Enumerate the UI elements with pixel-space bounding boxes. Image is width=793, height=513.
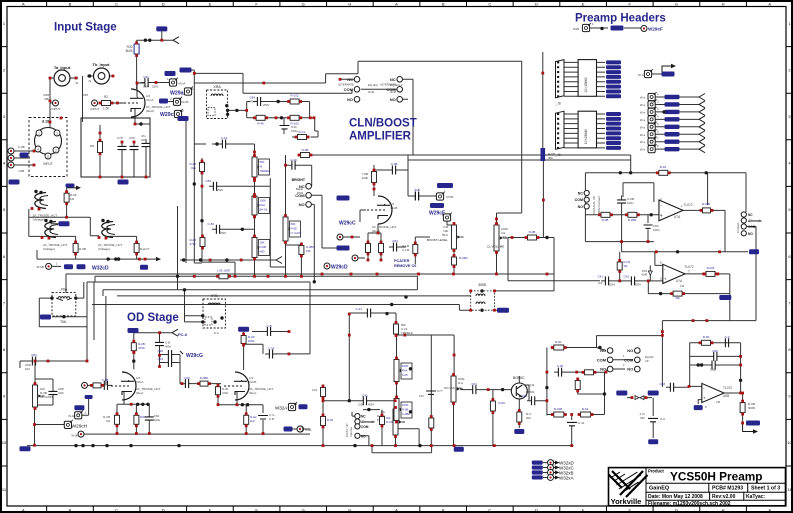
- svg-text:B: B: [69, 507, 72, 512]
- svg-text:GainEQ: GainEQ: [649, 486, 670, 492]
- svg-text:NC: NC: [347, 77, 353, 82]
- svg-text:R-0B: R-0B: [602, 218, 609, 222]
- svg-text:W32cD: W32cD: [92, 265, 109, 271]
- svg-text:X?B: X?B: [211, 294, 218, 298]
- svg-text:K-b: K-b: [214, 331, 219, 335]
- svg-text:NO: NO: [347, 97, 353, 102]
- svg-text:COM: COM: [748, 225, 756, 229]
- svg-text:Rev:v2.00: Rev:v2.00: [712, 494, 736, 500]
- svg-text:E: E: [209, 1, 212, 6]
- svg-text:R-HCT: R-HCT: [140, 247, 149, 251]
- svg-text:COM: COM: [344, 87, 354, 92]
- svg-text:BO50C: BO50C: [513, 376, 525, 380]
- svg-text:U6B: U6B: [723, 394, 729, 398]
- svg-text:INPUT: INPUT: [43, 162, 53, 166]
- svg-text:XRA: XRA: [213, 85, 221, 89]
- svg-text:470K: 470K: [138, 346, 145, 350]
- svg-text:A: A: [22, 507, 25, 512]
- svg-text:BA-06: BA-06: [260, 208, 268, 212]
- svg-text:NC: NC: [299, 184, 305, 189]
- svg-text:ALTERNATE: ALTERNATE: [338, 83, 354, 87]
- svg-text:OD VOLUME: OD VOLUME: [444, 386, 462, 390]
- svg-text:C32: C32: [143, 75, 149, 79]
- svg-text:NC: NC: [361, 415, 366, 419]
- svg-text:R-A: R-A: [458, 381, 463, 385]
- svg-text:100n: 100n: [143, 85, 150, 89]
- svg-text:C: C: [115, 507, 118, 512]
- svg-text:1.5k: 1.5k: [103, 107, 109, 111]
- svg-text:(Voltage): (Voltage): [33, 218, 45, 222]
- svg-text:W-a: W-a: [640, 133, 646, 137]
- svg-text:R-0B6: R-0B6: [628, 218, 637, 222]
- svg-text:OD GAIN: OD GAIN: [40, 395, 53, 399]
- svg-text:D: D: [162, 507, 165, 512]
- svg-text:H: H: [348, 1, 351, 6]
- svg-text:3008: 3008: [478, 283, 486, 287]
- svg-text:K-0B: K-0B: [18, 145, 25, 149]
- svg-text:100u: 100u: [291, 129, 298, 133]
- svg-text:LES: LES: [501, 235, 507, 239]
- svg-text:V2nB: V2nB: [249, 380, 256, 384]
- svg-text:H: H: [348, 507, 351, 512]
- svg-text:L-06 100R: L-06 100R: [217, 269, 230, 273]
- svg-text:C-41: C-41: [578, 421, 585, 425]
- svg-text:C68: C68: [659, 382, 665, 386]
- svg-text:W29cC: W29cC: [339, 221, 356, 227]
- svg-text:W-a: W-a: [640, 148, 646, 152]
- svg-text:C-0: C-0: [660, 417, 665, 421]
- svg-text:W-a: W-a: [640, 96, 646, 100]
- svg-text:+: +: [703, 396, 706, 401]
- svg-text:COM: COM: [295, 193, 305, 198]
- svg-text:R-00: R-00: [703, 335, 710, 339]
- svg-text:100n: 100n: [627, 201, 634, 205]
- svg-text:R-0B2: R-0B2: [459, 256, 468, 260]
- svg-text:1M: 1M: [70, 197, 75, 201]
- svg-text:4148: 4148: [641, 273, 647, 277]
- svg-text:OD Stage: OD Stage: [127, 312, 179, 324]
- svg-text:C-0B6: C-0B6: [402, 412, 410, 416]
- svg-text:C42: C42: [362, 394, 368, 398]
- svg-text:Ta_Input: Ta_Input: [54, 65, 71, 70]
- svg-text:REMOVE C6: REMOVE C6: [394, 264, 416, 268]
- svg-text:R-08: R-08: [291, 227, 298, 231]
- svg-text:600R: 600R: [748, 406, 756, 410]
- svg-text:Filename: m1293v200sch.sch 200: Filename: m1293v200sch.sch 2002: [648, 501, 731, 507]
- svg-text:Volume: Volume: [349, 427, 353, 437]
- svg-text:100k: 100k: [248, 339, 255, 343]
- svg-text:8k06: 8k06: [126, 49, 133, 53]
- svg-text:EQ-0nA: EQ-0nA: [368, 83, 378, 87]
- svg-text:C42: C42: [623, 275, 629, 279]
- svg-text:V1nA: V1nA: [178, 82, 185, 86]
- svg-text:NO: NO: [299, 202, 305, 207]
- svg-text:7: 7: [688, 270, 690, 274]
- svg-text:_J6: _J6: [555, 153, 561, 157]
- svg-text:(Rev): (Rev): [136, 391, 143, 395]
- svg-text:250V: 250V: [152, 85, 159, 89]
- svg-text:R4A: R4A: [402, 369, 408, 373]
- svg-text:R35: R35: [82, 93, 88, 97]
- svg-text:D: D: [535, 1, 538, 6]
- svg-text:BOOST LEVEL: BOOST LEVEL: [427, 238, 448, 242]
- svg-text:D1N: D1N: [642, 269, 647, 273]
- svg-text:C-LB: C-LB: [402, 248, 409, 252]
- svg-text:W32A: W32A: [275, 405, 287, 410]
- svg-text:C84: C84: [58, 391, 64, 395]
- svg-text:16V: 16V: [419, 394, 424, 398]
- svg-text:400V: 400V: [368, 403, 374, 407]
- svg-text:W-a: W-a: [640, 140, 646, 144]
- svg-text:30k: 30k: [548, 156, 553, 160]
- svg-text:Sheet 1 of 3: Sheet 1 of 3: [751, 486, 780, 492]
- svg-text:100K: 100K: [260, 199, 267, 203]
- svg-text:COAXIAL UP: COAXIAL UP: [592, 196, 596, 214]
- svg-text:W29: W29: [573, 27, 580, 31]
- svg-text:TL072: TL072: [684, 203, 693, 207]
- svg-text:D: D: [162, 1, 165, 6]
- svg-text:LM: LM: [716, 400, 721, 404]
- svg-text:C38: C38: [157, 349, 163, 353]
- svg-text:R-00: R-00: [555, 340, 562, 344]
- svg-text:10K: 10K: [260, 241, 265, 245]
- svg-text:C-0: C-0: [725, 335, 730, 339]
- svg-text:C84: C84: [205, 179, 211, 183]
- svg-text:W-a: W-a: [640, 125, 646, 129]
- svg-text:A: A: [768, 1, 771, 6]
- svg-text:X0A: X0A: [61, 288, 68, 292]
- svg-text:R-0B: R-0B: [260, 245, 267, 249]
- svg-text:C26: C26: [184, 376, 190, 380]
- svg-text:U7A: U7A: [674, 215, 681, 219]
- svg-text:E: E: [209, 507, 212, 512]
- svg-text:E: E: [582, 507, 585, 512]
- svg-text:Date: Mon May 12 2008: Date: Mon May 12 2008: [648, 494, 703, 500]
- svg-text:R2: R2: [104, 95, 108, 99]
- svg-text:R-0B: R-0B: [302, 148, 309, 152]
- svg-text:B: B: [442, 213, 444, 217]
- svg-text:V-0A: V-0A: [305, 428, 312, 432]
- svg-text:400V: 400V: [165, 345, 171, 349]
- svg-text:R-005: R-005: [554, 407, 563, 411]
- svg-text:C: C: [115, 1, 118, 6]
- svg-text:TREBLE: TREBLE: [401, 331, 413, 335]
- svg-text:R-CL: R-CL: [298, 130, 305, 134]
- svg-text:COM: COM: [624, 357, 634, 362]
- svg-text:220n: 220n: [358, 403, 364, 407]
- svg-text:W-0B: W-0B: [37, 265, 44, 269]
- svg-text:C30: C30: [129, 136, 135, 140]
- svg-text:COM: COM: [361, 425, 369, 429]
- svg-text:100u: 100u: [154, 418, 161, 422]
- svg-text:NO: NO: [390, 97, 396, 102]
- svg-text:TL072: TL072: [685, 265, 694, 269]
- svg-text:C-00: C-00: [557, 364, 564, 368]
- svg-text:(Voltage): (Voltage): [98, 247, 110, 251]
- svg-text:A: A: [395, 507, 398, 512]
- svg-text:1k0: 1k0: [250, 419, 255, 423]
- svg-text:KaTyac:: KaTyac:: [746, 494, 765, 500]
- svg-text:470k: 470k: [189, 242, 196, 246]
- svg-text:Input Stage: Input Stage: [54, 22, 117, 34]
- svg-text:C-16: C-16: [221, 136, 228, 140]
- svg-text:470k: 470k: [222, 391, 229, 395]
- svg-text:H: H: [722, 1, 725, 6]
- svg-text:C8: C8: [141, 138, 145, 142]
- svg-text:PCB# M1293: PCB# M1293: [712, 486, 743, 492]
- svg-text:NO: NO: [578, 205, 584, 209]
- svg-text:_J8: _J8: [555, 102, 561, 106]
- svg-text:J-0B: J-0B: [18, 169, 24, 173]
- svg-text:25V: 25V: [640, 416, 645, 420]
- svg-text:G: G: [302, 507, 305, 512]
- svg-text:R-0B: R-0B: [402, 408, 409, 412]
- svg-text:PC-0: PC-0: [178, 332, 188, 337]
- svg-text:H: H: [722, 507, 725, 512]
- svg-text:Alternate: Alternate: [748, 219, 762, 223]
- svg-text:C: C: [488, 507, 491, 512]
- svg-text:V1nB: V1nB: [390, 206, 397, 210]
- svg-text:50k: 50k: [675, 296, 680, 300]
- svg-text:250V: 250V: [263, 103, 269, 107]
- svg-text:10×15640: 10×15640: [584, 129, 588, 144]
- svg-text:R-02: R-02: [660, 165, 667, 169]
- svg-text:C-0B: C-0B: [391, 162, 398, 166]
- svg-text:C-B: C-B: [165, 341, 170, 345]
- svg-text:Yorkville: Yorkville: [611, 497, 642, 506]
- svg-text:D: D: [535, 507, 538, 512]
- svg-text:C23: C23: [157, 357, 163, 361]
- svg-text:R30: R30: [140, 415, 146, 419]
- svg-text:15k: 15k: [306, 249, 311, 253]
- svg-text:b-05: b-05: [402, 373, 408, 377]
- svg-text:UP: UP: [645, 359, 649, 363]
- svg-text:100p: 100p: [710, 368, 717, 372]
- svg-text:50K: 50K: [291, 222, 296, 226]
- svg-text:V2nA: V2nA: [136, 380, 143, 384]
- svg-text:W29cH: W29cH: [72, 424, 88, 430]
- svg-text:TREBLE: TREBLE: [260, 169, 271, 173]
- svg-text:B0501: B0501: [526, 390, 535, 394]
- svg-text:C-0B: C-0B: [102, 378, 109, 382]
- svg-text:16V: 16V: [25, 367, 30, 371]
- svg-text:C41: C41: [597, 275, 603, 279]
- svg-text:C-34: C-34: [268, 347, 275, 351]
- svg-text:Alternate: Alternate: [361, 420, 375, 424]
- svg-text:A: A: [768, 507, 771, 512]
- svg-text:C84: C84: [392, 239, 398, 243]
- svg-text:1M: 1M: [106, 419, 111, 423]
- svg-text:NC: NC: [390, 77, 396, 82]
- svg-text:COAX UP: COAX UP: [345, 423, 349, 437]
- svg-text:1M: 1M: [624, 264, 629, 268]
- svg-text:G: G: [675, 1, 678, 6]
- svg-text:W-0: W-0: [638, 73, 644, 77]
- svg-text:50K: 50K: [260, 160, 265, 164]
- svg-text:G: G: [675, 507, 678, 512]
- svg-text:2n2: 2n2: [598, 281, 603, 285]
- svg-text:J1: J1: [88, 79, 92, 83]
- svg-text:C-B: C-B: [269, 417, 274, 421]
- svg-text:E: E: [582, 1, 585, 6]
- svg-text:R-02: R-02: [582, 407, 589, 411]
- svg-text:R-005: R-005: [707, 266, 715, 270]
- svg-text:d.19: d.19: [42, 120, 49, 124]
- svg-text:3n40: 3n40: [368, 90, 375, 94]
- svg-text:B: B: [69, 1, 72, 6]
- svg-text:W-a: W-a: [640, 110, 646, 114]
- svg-text:W-a: W-a: [640, 103, 646, 107]
- svg-text:C7P: C7P: [117, 136, 123, 140]
- svg-text:W: W: [260, 165, 263, 169]
- svg-text:B: B: [442, 507, 445, 512]
- svg-text:CL VOLUME: CL VOLUME: [487, 245, 504, 249]
- svg-text:(Voltage): (Voltage): [43, 247, 55, 251]
- svg-text:C84: C84: [249, 96, 255, 100]
- svg-text:C-86: C-86: [207, 222, 214, 226]
- svg-text:2k0: 2k0: [526, 416, 531, 420]
- svg-text:J2: J2: [75, 81, 79, 85]
- svg-text:MID: MID: [260, 250, 265, 254]
- svg-text:W29cG: W29cG: [186, 353, 203, 359]
- svg-text:250V: 250V: [217, 188, 223, 192]
- svg-text:C: C: [488, 1, 491, 6]
- svg-text:B: B: [442, 1, 445, 6]
- svg-text:C84: C84: [31, 353, 37, 357]
- svg-text:NO: NO: [600, 348, 606, 353]
- svg-text:A: A: [395, 1, 398, 6]
- svg-text:C77: C77: [437, 389, 443, 393]
- svg-text:NO: NO: [748, 232, 753, 236]
- svg-text:C34: C34: [312, 388, 318, 392]
- svg-text:COM: COM: [597, 357, 607, 362]
- svg-text:82k: 82k: [191, 166, 196, 170]
- svg-text:NO: NO: [627, 348, 633, 353]
- svg-text:W-0b: W-0b: [71, 434, 78, 438]
- svg-text:Preamp Headers: Preamp Headers: [575, 13, 666, 25]
- svg-text:+: +: [664, 277, 667, 282]
- svg-text:10: 10: [787, 440, 792, 445]
- svg-text:R-102: R-102: [291, 94, 300, 98]
- svg-text:3n40: 3n40: [390, 90, 397, 94]
- svg-text:10×15640: 10×15640: [584, 77, 588, 92]
- svg-text:O. GAIN: O. GAIN: [291, 231, 302, 235]
- svg-text:W29cF: W29cF: [648, 27, 663, 32]
- svg-text:R-46: R-46: [257, 122, 264, 126]
- svg-text:T0A: T0A: [60, 320, 67, 324]
- svg-text:AMPLIFIER: AMPLIFIER: [349, 131, 412, 143]
- svg-text:250V: 250V: [609, 283, 615, 287]
- svg-text:PCATER: PCATER: [394, 259, 410, 263]
- svg-text:Q11: Q11: [529, 383, 535, 387]
- svg-text:R-00: R-00: [327, 418, 334, 422]
- svg-text:INPUT: INPUT: [91, 107, 100, 111]
- svg-text:TL072: TL072: [723, 386, 732, 390]
- svg-text:C119: C119: [498, 401, 505, 405]
- svg-text:G: G: [302, 1, 305, 6]
- svg-text:NC: NC: [748, 213, 753, 217]
- svg-text:(Rect): (Rect): [146, 109, 154, 113]
- svg-text:100K: 100K: [402, 364, 409, 368]
- svg-text:LM: LM: [680, 284, 685, 288]
- svg-text:COM: COM: [575, 198, 583, 202]
- svg-text:R-0B: R-0B: [79, 247, 86, 251]
- svg-text:EQ-0nA-2: EQ-0nA-2: [390, 83, 403, 87]
- svg-text:100K: 100K: [402, 403, 409, 407]
- svg-text:C-21: C-21: [355, 307, 362, 311]
- svg-text:R9: R9: [90, 144, 94, 148]
- svg-text:R4A: R4A: [260, 203, 266, 207]
- svg-text:V1nA: V1nA: [146, 98, 153, 102]
- svg-text:W-a: W-a: [640, 118, 646, 122]
- svg-text:V1nB: V1nB: [181, 100, 188, 104]
- svg-text:Product: Product: [648, 469, 664, 474]
- svg-text:250V: 250V: [635, 283, 641, 287]
- svg-text:W32xA: W32xA: [559, 475, 574, 480]
- svg-text:EQUAL: EQUAL: [645, 355, 654, 359]
- svg-text:NO: NO: [627, 367, 633, 372]
- svg-text:W29cD: W29cD: [331, 265, 348, 271]
- svg-text:470n: 470n: [249, 100, 255, 104]
- svg-text:C-B: C-B: [266, 324, 271, 328]
- svg-text:CLN/BOOST: CLN/BOOST: [349, 118, 417, 130]
- svg-text:250V: 250V: [220, 231, 226, 235]
- svg-text:3002 Contact: 3002 Contact: [597, 196, 601, 214]
- svg-text:R-C8: R-C8: [386, 420, 393, 424]
- svg-text:INPUT: INPUT: [52, 107, 61, 111]
- svg-text:BLK: BLK: [442, 233, 448, 237]
- svg-text:Tb_Input: Tb_Input: [93, 62, 111, 67]
- svg-text:NC: NC: [578, 192, 584, 196]
- svg-text:R-005: R-005: [702, 202, 711, 206]
- svg-text:A: A: [22, 1, 25, 6]
- svg-text:YCS50H Preamp: YCS50H Preamp: [670, 470, 762, 484]
- svg-text:Contact: Contact: [736, 222, 740, 233]
- svg-text:100u: 100u: [653, 228, 660, 232]
- svg-text:U?A: U?A: [676, 279, 683, 283]
- svg-text:100k: 100k: [361, 176, 368, 180]
- svg-text:10: 10: [2, 440, 7, 445]
- svg-text:(Rev): (Rev): [249, 391, 256, 395]
- svg-text:NO: NO: [361, 434, 366, 438]
- svg-text:BRIGHT: BRIGHT: [292, 178, 306, 182]
- svg-text:R-0B6: R-0B6: [200, 376, 208, 380]
- svg-text:V?nB: V?nB: [446, 195, 453, 199]
- svg-text:C66: C66: [712, 349, 718, 353]
- svg-text:C-8: C-8: [415, 188, 420, 192]
- svg-text:C45: C45: [521, 394, 527, 398]
- svg-text:C64: C64: [471, 382, 477, 386]
- svg-text:R-0B: R-0B: [529, 230, 536, 234]
- svg-text:C-30: C-30: [290, 158, 297, 162]
